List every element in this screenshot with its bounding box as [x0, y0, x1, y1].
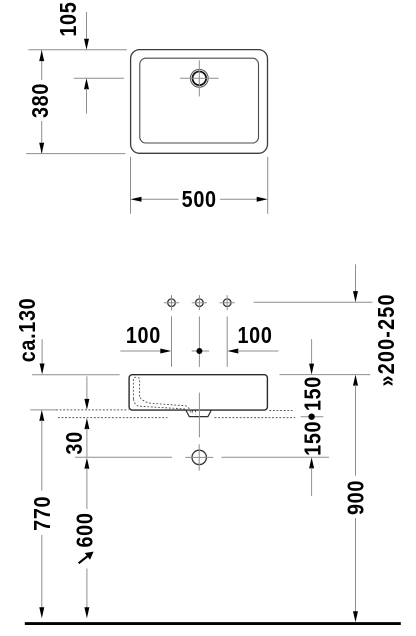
basin outline (front view) [129, 375, 267, 410]
faucet hole left crosshair [164, 295, 179, 310]
ext line 500 right [267, 157, 269, 214]
svg-text:105: 105 [55, 2, 81, 37]
dim 500 left arrow [131, 197, 142, 202]
ext line 770 solid [30, 409, 56, 411]
basin outer rim (top view) [131, 50, 268, 154]
dim 600 upper leg [86, 468, 88, 509]
dim 105 lower arrow [84, 78, 89, 89]
dim 150 upper leg [311, 339, 313, 364]
dim 150 upper arrow [309, 364, 314, 375]
dim 600 upper arrow [84, 458, 89, 469]
chain dot between 150s [301, 416, 324, 418]
basin centerline vertical [198, 393, 200, 438]
dim 770 lower arrow [39, 607, 44, 618]
adjustable height oblique arrow [79, 552, 94, 564]
dim 100 right arrow [227, 349, 238, 354]
svg-text:30: 30 [62, 431, 88, 454]
dim 600 lower arrow [84, 607, 89, 618]
basin hidden overflow channel dashed [133, 377, 139, 399]
hole ext line right [226, 316, 228, 366]
svg-text:150: 150 [300, 376, 326, 411]
drain crosshair vertical [198, 60, 200, 96]
dashed line B right [215, 417, 296, 419]
svg-text:600: 600 [72, 512, 98, 547]
dim 200-250 arrow [353, 291, 358, 302]
dim 30 lower leg [86, 428, 88, 457]
svg-text:100: 100 [126, 322, 161, 348]
dim 380 top arrow [39, 50, 44, 61]
svg-text:770: 770 [30, 496, 56, 531]
dim 105 lower leg [86, 89, 88, 114]
drain hidden dashes in trapezoid [193, 411, 196, 415]
svg-text:380: 380 [28, 83, 54, 118]
dim 500 right arrow [257, 197, 268, 202]
drain inner circle (top view) [193, 72, 207, 86]
svg-text:500: 500 [182, 187, 217, 213]
dim 380 line upper [41, 50, 43, 80]
faucet hole center crosshair [192, 295, 207, 310]
center reference dot [196, 348, 202, 354]
basin top ext left [32, 374, 120, 376]
dashed line B left [58, 417, 167, 419]
basin hidden slope upper dashed [140, 398, 192, 412]
dashed line A left [56, 409, 129, 411]
dim 900 lower leg [355, 518, 357, 612]
dim 100 right line [238, 350, 279, 352]
faucet hole right crosshair [220, 295, 235, 310]
dim 100 left line [120, 350, 161, 352]
dim 150 lower arrow [309, 457, 314, 468]
dim 380 line lower [41, 121, 43, 154]
dim 500 line right [220, 198, 258, 200]
faucet hole center [196, 299, 204, 307]
drain crosshair horizontal [180, 77, 219, 79]
extension line drain center [74, 77, 124, 79]
svg-text:ca.130: ca.130 [15, 298, 41, 363]
drain outer circle (top view) [190, 69, 208, 87]
dim 30 upper arrow [84, 399, 89, 410]
dim 500 line left [141, 198, 179, 200]
svg-text:100: 100 [237, 322, 272, 348]
drain centerline left [75, 456, 172, 458]
dim ca.130 arrow [40, 364, 45, 375]
dim ca.130 leg [41, 339, 43, 364]
dim 105 upper leg [86, 12, 88, 40]
extension line bottom edge [26, 153, 125, 155]
dim 900 upper arrow [353, 375, 358, 386]
svg-text:900: 900 [343, 480, 369, 515]
dim 100 center segment [192, 350, 209, 352]
dim 105 upper arrow [84, 39, 89, 50]
faucet hole left [168, 299, 176, 307]
dim 770 upper leg [41, 420, 43, 491]
dim 30 lower arrow [84, 418, 89, 429]
dim 600 lower leg [86, 569, 88, 613]
faucet hole right [223, 299, 231, 307]
wall drain circle [192, 450, 206, 464]
drain centerline right [222, 456, 330, 458]
basin inner rim (top view) [140, 58, 259, 143]
dim 770 upper arrow [39, 410, 44, 421]
dim 380 bottom arrow [39, 143, 44, 154]
dim 30 upper leg [86, 376, 88, 399]
dim 150 lower leg [311, 468, 313, 496]
basin hidden slope lower dashed [133, 399, 193, 414]
hole ext line center [198, 316, 200, 366]
dashed line A right [269, 410, 292, 412]
svg-text:»200-250: »200-250 [374, 293, 400, 386]
ext line 500 left [130, 157, 132, 214]
drain trapezoid (front view) [186, 410, 211, 416]
dim 100 left arrow [160, 349, 171, 354]
dim 770 lower leg [41, 535, 43, 612]
faucet line right extension [254, 301, 373, 303]
svg-text:150: 150 [300, 421, 326, 456]
floor line [25, 622, 401, 625]
hole ext line left [171, 316, 173, 366]
dim 900 upper leg [355, 385, 357, 476]
wall drain crosshair [185, 444, 213, 470]
basin top ext right [280, 374, 371, 376]
dim 900 lower arrow [353, 611, 358, 622]
dim 200-250 leg [355, 264, 357, 292]
extension line top edge [28, 49, 126, 51]
